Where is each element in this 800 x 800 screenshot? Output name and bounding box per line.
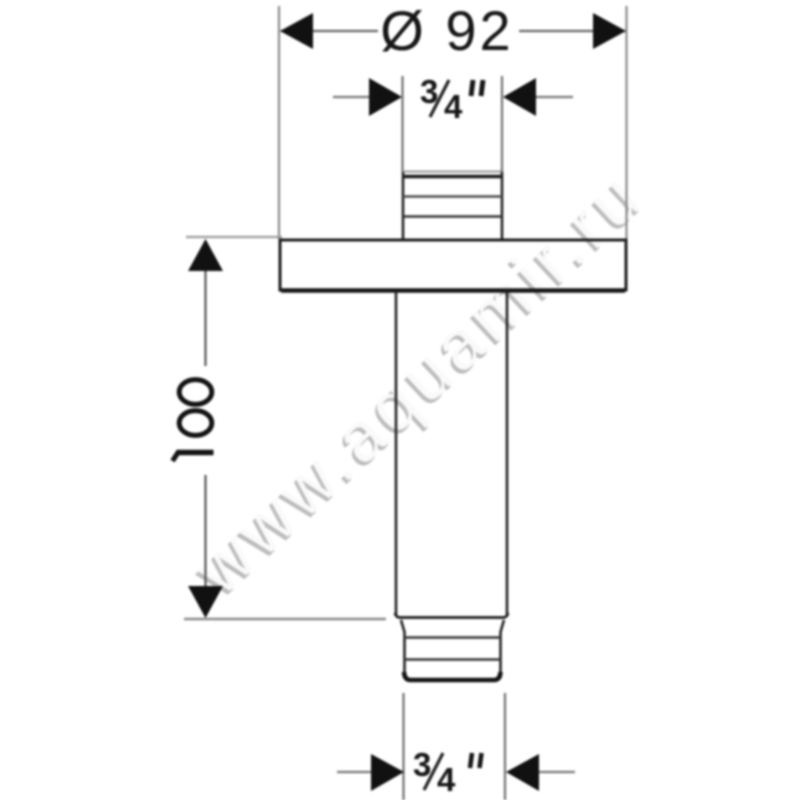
svg-text:4: 4 bbox=[444, 88, 463, 125]
arrowhead left of top 3/4 inch bbox=[369, 78, 402, 116]
extension line left of diameter 92 bbox=[278, 6, 280, 239]
vertical pipe body fill bbox=[396, 291, 506, 617]
flange plate bbox=[280, 240, 626, 290]
bottom threaded pipe body fill bbox=[404, 618, 501, 682]
dimension text bottom 3/4 inch bbox=[413, 746, 482, 798]
top thread top edge bbox=[402, 175, 503, 178]
bottom thread right side bbox=[501, 620, 505, 678]
bottom thread line 2 bbox=[404, 658, 501, 661]
top thread line 2 bbox=[403, 215, 502, 218]
top threaded pipe body fill bbox=[403, 173, 502, 240]
arrowhead right of diameter 92 bbox=[593, 13, 626, 49]
arrowhead left of diameter 92 bbox=[280, 13, 313, 49]
arrowhead left of bottom 3/4 inch bbox=[371, 754, 404, 791]
bottom thread line 1 bbox=[404, 636, 501, 639]
extension line right of bottom 3/4 inch bbox=[504, 693, 506, 800]
flange body fill bbox=[279, 239, 628, 292]
pipe right side bbox=[506, 292, 509, 617]
dimension line diameter 92 right segment bbox=[519, 30, 625, 32]
extension line right of diameter 92 bbox=[625, 6, 627, 239]
extension line left of bottom 3/4 inch bbox=[402, 693, 404, 800]
arrowhead right of top 3/4 inch bbox=[503, 78, 536, 116]
dimension text 100 digit 0 (upper) bbox=[179, 380, 212, 405]
extension line right of top 3/4 inch bbox=[501, 76, 503, 172]
top thread chamfer line bbox=[404, 171, 501, 173]
dimension line diameter 92 left segment bbox=[281, 30, 378, 32]
arrowhead right of bottom 3/4 inch bbox=[506, 754, 539, 791]
dimension line tail left of bottom 3/4 inch bbox=[337, 771, 372, 773]
arrowhead up of 100 bbox=[188, 239, 223, 271]
extension line bottom of 100 bbox=[184, 618, 386, 620]
dimension line tail right of top 3/4 inch bbox=[536, 96, 573, 98]
dimension text 100 digit 1 bbox=[173, 451, 214, 461]
bottom thread bottom heavy edge bbox=[404, 672, 501, 680]
extension line left of top 3/4 inch bbox=[401, 76, 403, 172]
pipe left side bbox=[395, 292, 398, 617]
dimension line tail left of top 3/4 inch bbox=[333, 96, 369, 98]
svg-text:4: 4 bbox=[437, 761, 456, 798]
dimension text top 3/4 inch bbox=[420, 73, 483, 125]
arrowhead down of 100 bbox=[188, 586, 223, 618]
top thread line 1 bbox=[403, 195, 502, 197]
svg-text:3: 3 bbox=[413, 746, 431, 783]
watermark www.aquamir.ru bbox=[176, 155, 660, 613]
extension line top of 100 bbox=[186, 236, 282, 238]
flange bottom heavy edge bbox=[281, 288, 625, 293]
top thread left side bbox=[402, 172, 405, 240]
pipe bottom edge bbox=[395, 613, 508, 618]
dimension text 100 digit 0 (lower) bbox=[179, 411, 212, 436]
bottom thread left side bbox=[401, 620, 405, 678]
dimension line 100 upper segment bbox=[204, 241, 206, 366]
dimension line tail right of bottom 3/4 inch bbox=[539, 771, 575, 773]
top thread right side bbox=[501, 172, 504, 240]
svg-text:Ø 92: Ø 92 bbox=[380, 0, 513, 62]
dimension line 100 lower segment bbox=[204, 475, 206, 615]
